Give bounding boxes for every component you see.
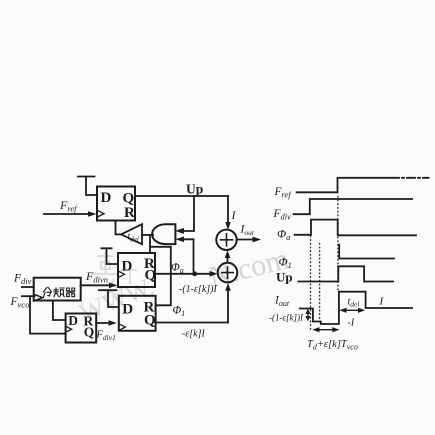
svg-text:-(1-ε[k])I: -(1-ε[k])I — [269, 313, 304, 323]
measure arrow T_d + e[k]T_vco — [312, 327, 339, 332]
svg-text:D: D — [122, 259, 133, 275]
wire delay input from AND output — [142, 234, 153, 236]
waveform phi_1 — [339, 245, 394, 259]
wire reset net branch to FF3 R — [150, 247, 171, 305]
AND gate U1 (mirrored, inputs right) — [152, 224, 175, 244]
node junction dot phi_a — [192, 271, 197, 276]
wire F_ref input arrow — [44, 211, 97, 217]
waveform I_out — [300, 292, 412, 324]
svg-text:Q: Q — [144, 313, 156, 329]
flip-flop FF3 (fractional compensation) — [119, 296, 156, 331]
measure arrow (1-e[k])I level — [305, 309, 310, 322]
summer S2 (bottom adder) — [218, 263, 238, 283]
wire summer S2 to summer S1 — [225, 250, 231, 262]
svg-text:D: D — [122, 302, 133, 318]
watermark — [75, 242, 292, 327]
delay buffer t_del (triangle) — [121, 224, 142, 244]
wire reset net to FF2 R — [149, 235, 151, 253]
svg-text:Up: Up — [276, 270, 293, 285]
wire Up to AND upper input — [176, 196, 195, 234]
wire FF1 Q output (Up net) — [135, 195, 228, 197]
wire F_div input — [22, 286, 34, 288]
divider label (CJK strokes) — [44, 288, 75, 298]
wire FF3 Q output phi_1 — [156, 322, 228, 324]
divider box (frequency divider) — [34, 278, 81, 301]
flip-flop FF1 (phase detector, F_ref) — [97, 187, 135, 222]
waveform F_div — [294, 199, 413, 214]
waveform F_ref — [297, 178, 390, 193]
dashed guide line at F_ref rise — [337, 197, 339, 292]
power symbol VDD for flip-flop FF2 — [102, 248, 119, 264]
power symbol VDD for flip-flop FF3 — [99, 290, 119, 307]
svg-text:Up: Up — [186, 182, 203, 197]
svg-text:Q: Q — [84, 325, 95, 340]
flip-flop FF4 (divide-by-2, F_div1) — [66, 313, 97, 343]
wire phi_1 up into summer S2 — [225, 283, 231, 323]
wire F_vco to FF4 clock — [30, 296, 66, 333]
svg-text:D: D — [68, 313, 78, 328]
svg-text:-ε[k]I: -ε[k]I — [182, 329, 205, 340]
wire FF1 reset to delay output — [116, 221, 122, 235]
svg-text:-I: -I — [348, 318, 355, 329]
wire F_vco input — [22, 295, 35, 297]
wire FF2 Q output, node phi_a — [155, 271, 218, 277]
wire FF4 output F_div1 to FF3 clock — [96, 320, 117, 326]
waveform phi_a — [295, 220, 416, 236]
wire AND lower input from node phi_a — [176, 237, 194, 272]
wire summer S1 output arrow — [237, 237, 261, 243]
wire divider to FF4 D — [53, 301, 66, 321]
dashed guide line at epsilon step — [319, 244, 321, 322]
svg-text:Q: Q — [145, 268, 157, 284]
summer S1 (top adder) — [216, 230, 236, 250]
svg-text:R: R — [124, 205, 135, 221]
svg-text:-(1-ε[k])I: -(1-ε[k])I — [179, 284, 217, 295]
wire AND upper input from Up — [176, 228, 185, 234]
measure arrow pulse width t_del — [339, 308, 365, 313]
flip-flop FF2 (F_divn sampler) — [118, 253, 157, 287]
power symbol VDD for flip-flop FF1 — [78, 177, 97, 196]
wire divider output to FF2 clock — [81, 283, 118, 289]
wire Up down to summer S1, current I — [225, 196, 231, 230]
dashed guide line at F_div rise — [310, 236, 312, 330]
svg-text:D: D — [101, 190, 112, 206]
waveform Up — [299, 266, 394, 281]
